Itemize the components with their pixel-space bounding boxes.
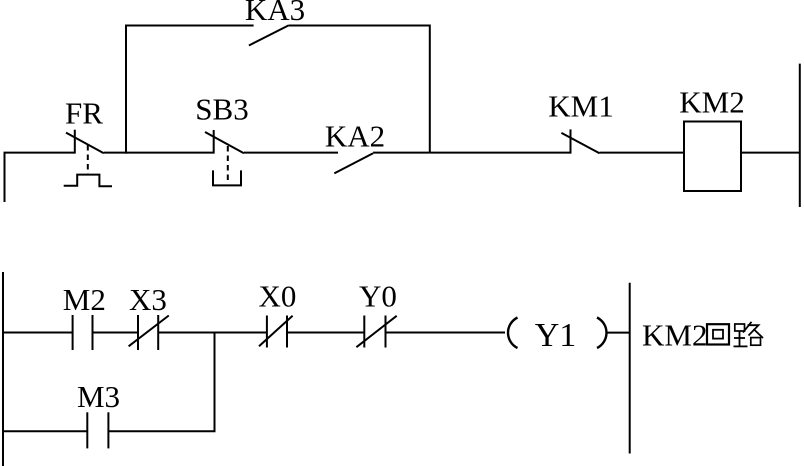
svg-text:KA2: KA2 bbox=[325, 119, 385, 154]
wire: M3 to branch vertical bbox=[108, 430, 215, 432]
contact M3 (NO) bbox=[87, 412, 108, 448]
wire: left rail to M2 bbox=[2, 332, 73, 334]
wire: FR to KA3-branch left junction bbox=[104, 152, 127, 154]
wire: right power rail bbox=[799, 64, 801, 207]
wire: junction to X0 bbox=[215, 332, 267, 334]
svg-text:Y1: Y1 bbox=[535, 317, 577, 354]
wire: KA2 to KA3-branch right junction bbox=[373, 152, 430, 154]
wire: left rail to FR bbox=[4, 152, 75, 154]
svg-text:X3: X3 bbox=[129, 282, 167, 317]
svg-text:Y0: Y0 bbox=[359, 279, 397, 314]
svg-text:KM2: KM2 bbox=[642, 317, 707, 352]
svg-text:M3: M3 bbox=[77, 379, 120, 414]
contact X0 (NC) bbox=[259, 316, 293, 348]
wire: KA3 branch left vertical bbox=[125, 25, 127, 154]
wire: Y0 to output coil Y1 bbox=[386, 332, 506, 334]
contact Y0 (NC) bbox=[356, 316, 396, 348]
wire: X0 to Y0 bbox=[287, 332, 364, 334]
svg-text:KM2: KM2 bbox=[679, 85, 744, 120]
svg-text:M2: M2 bbox=[63, 282, 106, 317]
wire: left rail stub (top circuit) bbox=[4, 153, 6, 202]
contact X3 (NC) bbox=[129, 315, 169, 350]
wire: ladder right rail bbox=[629, 283, 631, 454]
wire: junction to KM1 bbox=[430, 152, 571, 154]
wire: parallel branch vertical bbox=[214, 333, 216, 432]
svg-text:X0: X0 bbox=[259, 279, 297, 314]
interlock contact KM1 (NC) bbox=[561, 129, 599, 153]
wire: KM2 coil to right rail bbox=[741, 152, 800, 154]
wire: coil Y1 to right rail bbox=[608, 332, 630, 334]
wire: ladder left power rail bbox=[2, 272, 4, 466]
push button SB3 (NC) bbox=[205, 130, 244, 154]
svg-text:SB3: SB3 bbox=[195, 92, 248, 127]
wire: left rail to M3 bbox=[2, 430, 87, 432]
relay contact KA3 (NO) bbox=[249, 25, 289, 45]
svg-text:FR: FR bbox=[65, 96, 103, 131]
FR thermal element symbol bbox=[64, 175, 112, 187]
svg-text:KM1: KM1 bbox=[548, 89, 613, 124]
SB3 dashed actuator link bbox=[227, 146, 229, 180]
wire: X3 to branch junction bbox=[158, 332, 215, 334]
wire: KA3 branch top right segment bbox=[289, 25, 430, 27]
thermal relay contact FR (NC) bbox=[66, 130, 104, 154]
contact M2 (NO) bbox=[73, 315, 93, 350]
wire: SB3 to KA2 bbox=[244, 152, 338, 154]
wire: junction to SB3 bbox=[126, 152, 214, 154]
wire: M2 to X3 bbox=[93, 332, 139, 334]
FR dashed actuator link bbox=[87, 145, 89, 174]
output coil Y1 bbox=[508, 317, 606, 354]
svg-text:KA3: KA3 bbox=[245, 0, 305, 27]
contactor coil KM2 bbox=[684, 122, 741, 192]
relay contact KA2 (NO) bbox=[334, 153, 373, 173]
wire: KA3 branch right vertical bbox=[429, 25, 431, 153]
label KM2回路 (KM2 circuit) bbox=[642, 317, 763, 352]
wire: KA3 branch top left segment bbox=[125, 25, 254, 27]
SB3 button actuator symbol bbox=[213, 170, 241, 185]
wire: KM1 to KM2 coil bbox=[600, 152, 685, 154]
